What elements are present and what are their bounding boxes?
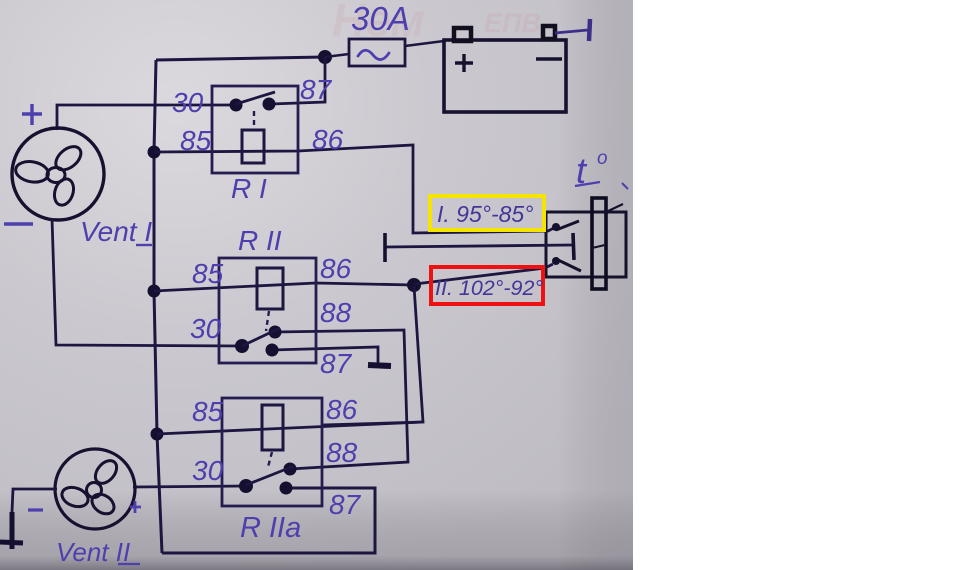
wire: left 85 bus vertical	[154, 60, 162, 553]
wire: bottom loop bus to relay RIIa pin 87	[162, 488, 375, 553]
relay RIIa box	[222, 398, 322, 506]
temp sensor lower contact arm	[556, 259, 581, 271]
wire: battery negative lead	[555, 30, 588, 33]
fan Vent I circle	[12, 128, 104, 220]
relay RIIa switch arm	[246, 466, 294, 485]
fan Vent I blade upper right	[51, 142, 85, 174]
svg-text:85: 85	[180, 125, 212, 156]
relay RII coil	[257, 268, 283, 309]
wire: RII junction to sensor lower contact	[415, 264, 553, 284]
node: junction at fuse input	[318, 50, 332, 64]
wire: RIIa 85 row across to 86 riser	[157, 422, 423, 434]
relay RII contact dot 87	[266, 344, 279, 357]
wire: junction down to relay RIIa 86 row	[322, 286, 423, 425]
temp sensor upper contact blob	[552, 223, 560, 231]
svg-text:Vent II: Vent II	[56, 537, 130, 567]
fan Vent II plus label	[130, 501, 141, 513]
fan Vent I plus label	[22, 104, 42, 125]
terminal bar at Vent II minus lead	[0, 542, 23, 543]
fan Vent II minus label	[28, 508, 43, 511]
t underline stroke	[575, 182, 600, 186]
svg-text:30A: 30A	[351, 0, 410, 37]
fuse F1 30A body	[349, 39, 405, 66]
wire: fan Vent I plus to relay RI pin 30	[57, 105, 238, 130]
fan Vent II hub	[87, 483, 102, 498]
svg-text:88: 88	[326, 437, 358, 468]
connector bar left of sensor common	[383, 233, 387, 262]
svg-text:30: 30	[190, 313, 222, 344]
svg-text:85: 85	[192, 258, 224, 289]
svg-text:ЕПВ: ЕПВ	[484, 8, 541, 38]
temp sensor element tall bar	[592, 198, 606, 289]
relay RI contact dot 30	[230, 99, 243, 112]
svg-text:R I: R I	[231, 173, 267, 204]
svg-text:85: 85	[192, 396, 224, 427]
relay RII box	[219, 258, 316, 363]
node: bus junction at RI 85	[148, 146, 161, 159]
wire: fan Vent II plus to relay RIIa pin 30	[133, 486, 246, 487]
underline under Vent I numeral	[136, 244, 152, 246]
relay RIIa contact dot 87	[280, 482, 293, 495]
relay RI contact dot 87	[263, 98, 276, 111]
battery positive terminal	[454, 28, 471, 41]
wire: sensor common with connector bars	[385, 245, 572, 247]
wire: RII pin 88 to RIIa pin 88	[275, 330, 408, 469]
ground symbol at RII 87	[368, 365, 391, 366]
red annotation box	[431, 267, 543, 304]
relay RI coil	[242, 130, 264, 163]
svg-text:30: 30	[192, 455, 224, 486]
wire: RII pin 87 to ground	[272, 347, 378, 363]
svg-text:86: 86	[326, 394, 358, 425]
svg-text:Vent I: Vent I	[80, 216, 152, 247]
wire: junction to fuse	[325, 54, 349, 57]
fan Vent I blade lower	[51, 176, 76, 207]
terminal bar at battery negative lead end	[589, 19, 590, 41]
relay RIIa contact dot 88	[284, 463, 297, 476]
underline under Vent II numeral	[118, 563, 140, 565]
svg-text:86: 86	[320, 253, 352, 284]
svg-text:87: 87	[300, 74, 333, 105]
fan Vent I minus label	[4, 222, 33, 226]
relay RII dashed actuator link	[266, 311, 269, 331]
battery plus sign	[455, 54, 473, 72]
relay RI box	[212, 86, 298, 173]
wire: fuse to battery	[405, 41, 444, 46]
fan Vent II blade lower right	[88, 490, 117, 518]
watermark	[332, 0, 541, 46]
relay RI dashed actuator link	[253, 111, 255, 129]
t tick mark	[622, 183, 628, 189]
relay RII switch arm	[242, 328, 280, 346]
relay RIIa dashed actuator link	[268, 452, 272, 467]
wire: fan Vent II minus lead	[12, 489, 57, 512]
svg-text:86: 86	[312, 124, 344, 155]
fan Vent II blade upper right	[91, 457, 121, 488]
battery minus sign	[536, 57, 562, 61]
relay RII contact dot 88	[269, 326, 282, 339]
battery negative terminal	[543, 26, 555, 39]
svg-text:30: 30	[172, 87, 204, 118]
wire: RII 85-86 row to junction	[154, 283, 414, 291]
node: bus junction at RII 85	[148, 285, 161, 298]
svg-text:II. 102°-92°: II. 102°-92°	[435, 276, 543, 300]
temp sensor body	[546, 212, 626, 277]
node: bus junction at RIIa 85	[151, 428, 164, 441]
fuse F1 tilde symbol	[358, 50, 389, 59]
svg-text:I. 95°-85°: I. 95°-85°	[437, 201, 533, 227]
svg-text:88: 88	[320, 297, 352, 328]
relay RIIa coil	[262, 405, 283, 450]
svg-text:87: 87	[320, 348, 353, 379]
sensor common contact bar	[573, 233, 574, 260]
svg-text:R II: R II	[238, 225, 282, 256]
relay RIIa contact dot 30	[239, 479, 253, 493]
wire: fan Vent I minus down to relay RII pin 30	[52, 218, 244, 346]
temp sensor middle tick	[592, 245, 605, 248]
svg-text:87: 87	[329, 489, 362, 520]
yellow annotation box	[430, 196, 544, 230]
svg-text:o: o	[597, 148, 608, 169]
temp sensor upper contact arm	[556, 221, 579, 230]
relay RI switch arm	[236, 92, 275, 104]
battery body	[444, 40, 566, 112]
temp sensor lower contact blob	[552, 257, 560, 265]
wire: relay RI pin 87 riser to fuse junction	[271, 57, 325, 104]
fan Vent I blade left	[14, 159, 50, 184]
relay RII contact dot 30	[235, 339, 249, 353]
fan Vent II circle	[55, 449, 135, 529]
node: junction RII 86	[407, 278, 421, 292]
wire: RI 85-86 row to temp sensor upper contact	[154, 145, 554, 233]
temp sensor corner stroke	[604, 204, 623, 213]
fan Vent II blade left	[59, 484, 91, 510]
fan Vent I hub	[47, 168, 65, 183]
wire: top bus from left bus to fuse junction	[156, 57, 325, 60]
svg-text:R IIa: R IIa	[240, 512, 301, 544]
